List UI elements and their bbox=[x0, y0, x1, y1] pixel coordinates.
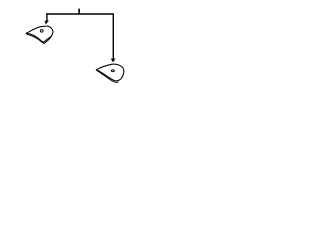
plate right thickness edge bbox=[97, 70, 119, 82]
plate right (curved pad) bbox=[96, 64, 124, 81]
arrow left bbox=[45, 21, 49, 25]
background bbox=[0, 0, 150, 92]
hole marker left bbox=[40, 30, 43, 32]
tick mark at top center bbox=[78, 9, 80, 14]
wire: right vertical segment bbox=[112, 13, 114, 58]
hole marker right bbox=[111, 70, 114, 72]
plate left thickness edge bbox=[27, 34, 52, 43]
arrow right bbox=[111, 59, 116, 63]
wire: left drop segment bbox=[46, 13, 48, 21]
plate left (curved pad) bbox=[26, 26, 53, 42]
wire: top horizontal bus bbox=[46, 13, 114, 15]
